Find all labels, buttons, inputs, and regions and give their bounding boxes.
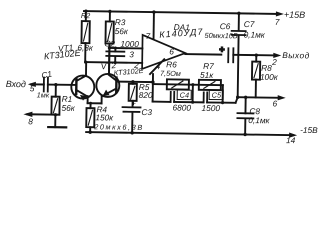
svg-text:5: 5 xyxy=(30,83,35,93)
node pin8 tap xyxy=(54,113,57,116)
resistor R7 xyxy=(199,80,221,90)
svg-text:1000: 1000 xyxy=(120,39,139,49)
node C2 top stub xyxy=(114,47,117,50)
resistor R3 xyxy=(109,11,111,21)
svg-text:6: 6 xyxy=(169,46,174,56)
wire feedback ladder top xyxy=(153,84,223,85)
op-amp U1 DA1 triangle xyxy=(142,35,185,70)
svg-text:С7: С7 xyxy=(244,19,255,29)
node C8 bottom on bus xyxy=(243,133,246,136)
node mid ladder top xyxy=(191,83,194,86)
resistor R1 xyxy=(55,85,57,97)
svg-text:+: + xyxy=(219,44,224,54)
svg-text:14: 14 xyxy=(286,135,296,145)
wire top +15V bus xyxy=(84,11,280,14)
terminal input arrow pin 5 xyxy=(28,82,36,87)
svg-text:7,5Ом: 7,5Ом xyxy=(160,69,181,78)
svg-text:0,1мк: 0,1мк xyxy=(244,29,266,39)
node W2 left corner xyxy=(84,60,87,63)
svg-text:С3: С3 xyxy=(141,107,152,117)
node R8 top xyxy=(255,53,258,56)
node R8 bottom / C8 top xyxy=(244,96,247,99)
wire to terminal pin 8 xyxy=(27,113,56,115)
node ladder right bottom xyxy=(221,101,224,104)
svg-text:6: 6 xyxy=(273,98,278,108)
svg-text:С6: С6 xyxy=(220,21,231,31)
transistor Q1 VT1 xyxy=(71,75,94,98)
svg-text:Вход: Вход xyxy=(6,79,26,89)
wire ladder bottom right xyxy=(207,101,235,103)
capacitor C4 xyxy=(170,92,172,102)
ground bar xyxy=(48,126,66,128)
svg-text:8: 8 xyxy=(28,116,33,126)
node R1 top xyxy=(54,83,57,86)
wire R3 bottom to VT2 collector xyxy=(108,43,110,74)
svg-text:820: 820 xyxy=(139,90,153,100)
resistor R6 xyxy=(167,79,189,89)
wire emitters common xyxy=(88,102,102,104)
svg-text:-15В: -15В xyxy=(300,125,318,135)
wire op-amp output xyxy=(185,53,221,56)
terminal -15V arrow pin 14 xyxy=(289,133,297,138)
terminal arrow pin 6 xyxy=(278,95,286,100)
node C2 bottom on pin2 wire xyxy=(114,61,117,64)
node C3 bottom on bus xyxy=(130,131,133,134)
svg-text:56к: 56к xyxy=(115,26,129,36)
node W1 tap on R3 lead xyxy=(108,46,111,49)
svg-text:С1: С1 xyxy=(40,69,52,81)
capacitor C7 xyxy=(238,13,240,30)
svg-text:150к: 150к xyxy=(95,112,114,122)
terminal arrow pin 8 xyxy=(23,111,32,117)
svg-text:С5: С5 xyxy=(212,90,222,99)
svg-text:50мкх10Б: 50мкх10Б xyxy=(205,31,238,40)
node bus left end R2 xyxy=(84,9,87,12)
wire right ladder vertical xyxy=(222,85,224,102)
svg-text:Выход: Выход xyxy=(282,50,310,60)
resistor R4 xyxy=(86,108,94,127)
capacitor C2 xyxy=(114,48,116,51)
resistor R2 xyxy=(85,11,87,21)
wire op-amp pin 7 supply xyxy=(153,12,155,38)
svg-text:7: 7 xyxy=(275,17,280,27)
wire ladder bottom left xyxy=(153,101,171,103)
node R3 top on bus xyxy=(108,10,111,13)
node X feedback left xyxy=(151,80,154,83)
svg-text:2: 2 xyxy=(271,57,277,67)
capacitor C8 xyxy=(244,97,246,113)
node C7 top on bus xyxy=(237,12,240,15)
node emitter junction R4 xyxy=(89,102,92,105)
svg-text:0,1мк: 0,1мк xyxy=(248,115,270,125)
transistor Q2 VT2 xyxy=(96,74,119,97)
svg-text:6800: 6800 xyxy=(172,102,191,112)
wire ladder bottom mid xyxy=(174,101,203,103)
capacitor C6 xyxy=(227,48,229,62)
svg-text:3: 3 xyxy=(129,49,134,59)
node R4 bottom on bus xyxy=(88,130,91,133)
wire bottom -15V bus xyxy=(86,132,293,135)
node op-amp pin7 on bus xyxy=(152,10,155,13)
terminal +15V arrow pin 7 xyxy=(276,11,284,16)
svg-text:56к: 56к xyxy=(61,103,75,113)
resistor R5 xyxy=(132,82,134,84)
svg-text:1500: 1500 xyxy=(201,103,220,113)
wire common line pin 6 xyxy=(238,96,281,99)
svg-text:С4: С4 xyxy=(180,91,189,100)
wire input xyxy=(31,83,44,85)
svg-text:+15В: +15В xyxy=(284,10,305,20)
capacitor C5 xyxy=(203,92,205,102)
node R5 top xyxy=(131,80,134,83)
svg-text:51к: 51к xyxy=(200,70,214,80)
svg-text:7: 7 xyxy=(146,31,151,41)
node C7 bottom xyxy=(236,95,239,98)
wire VT2 base to feedback node xyxy=(116,81,152,84)
node mid ladder bottom xyxy=(191,101,194,104)
wire C1 to VT1 base xyxy=(48,84,76,86)
capacitor C3 xyxy=(123,106,141,108)
svg-text:100к: 100к xyxy=(260,72,279,82)
wire output to terminal xyxy=(233,54,277,57)
svg-text:1мк: 1мк xyxy=(37,90,50,99)
wire op-amp pin 4 diagonal xyxy=(150,59,164,74)
wire mid ladder vertical xyxy=(192,85,194,102)
svg-text:20мкх6,3В: 20мкх6,3В xyxy=(93,122,144,132)
wire op-amp pin3 input xyxy=(109,47,142,49)
resistor R8 xyxy=(255,55,257,61)
wire op-amp pin2 input from VT1 collector xyxy=(85,61,142,64)
capacitor C1 xyxy=(43,77,45,91)
terminal output arrow pin 2 xyxy=(273,53,281,58)
